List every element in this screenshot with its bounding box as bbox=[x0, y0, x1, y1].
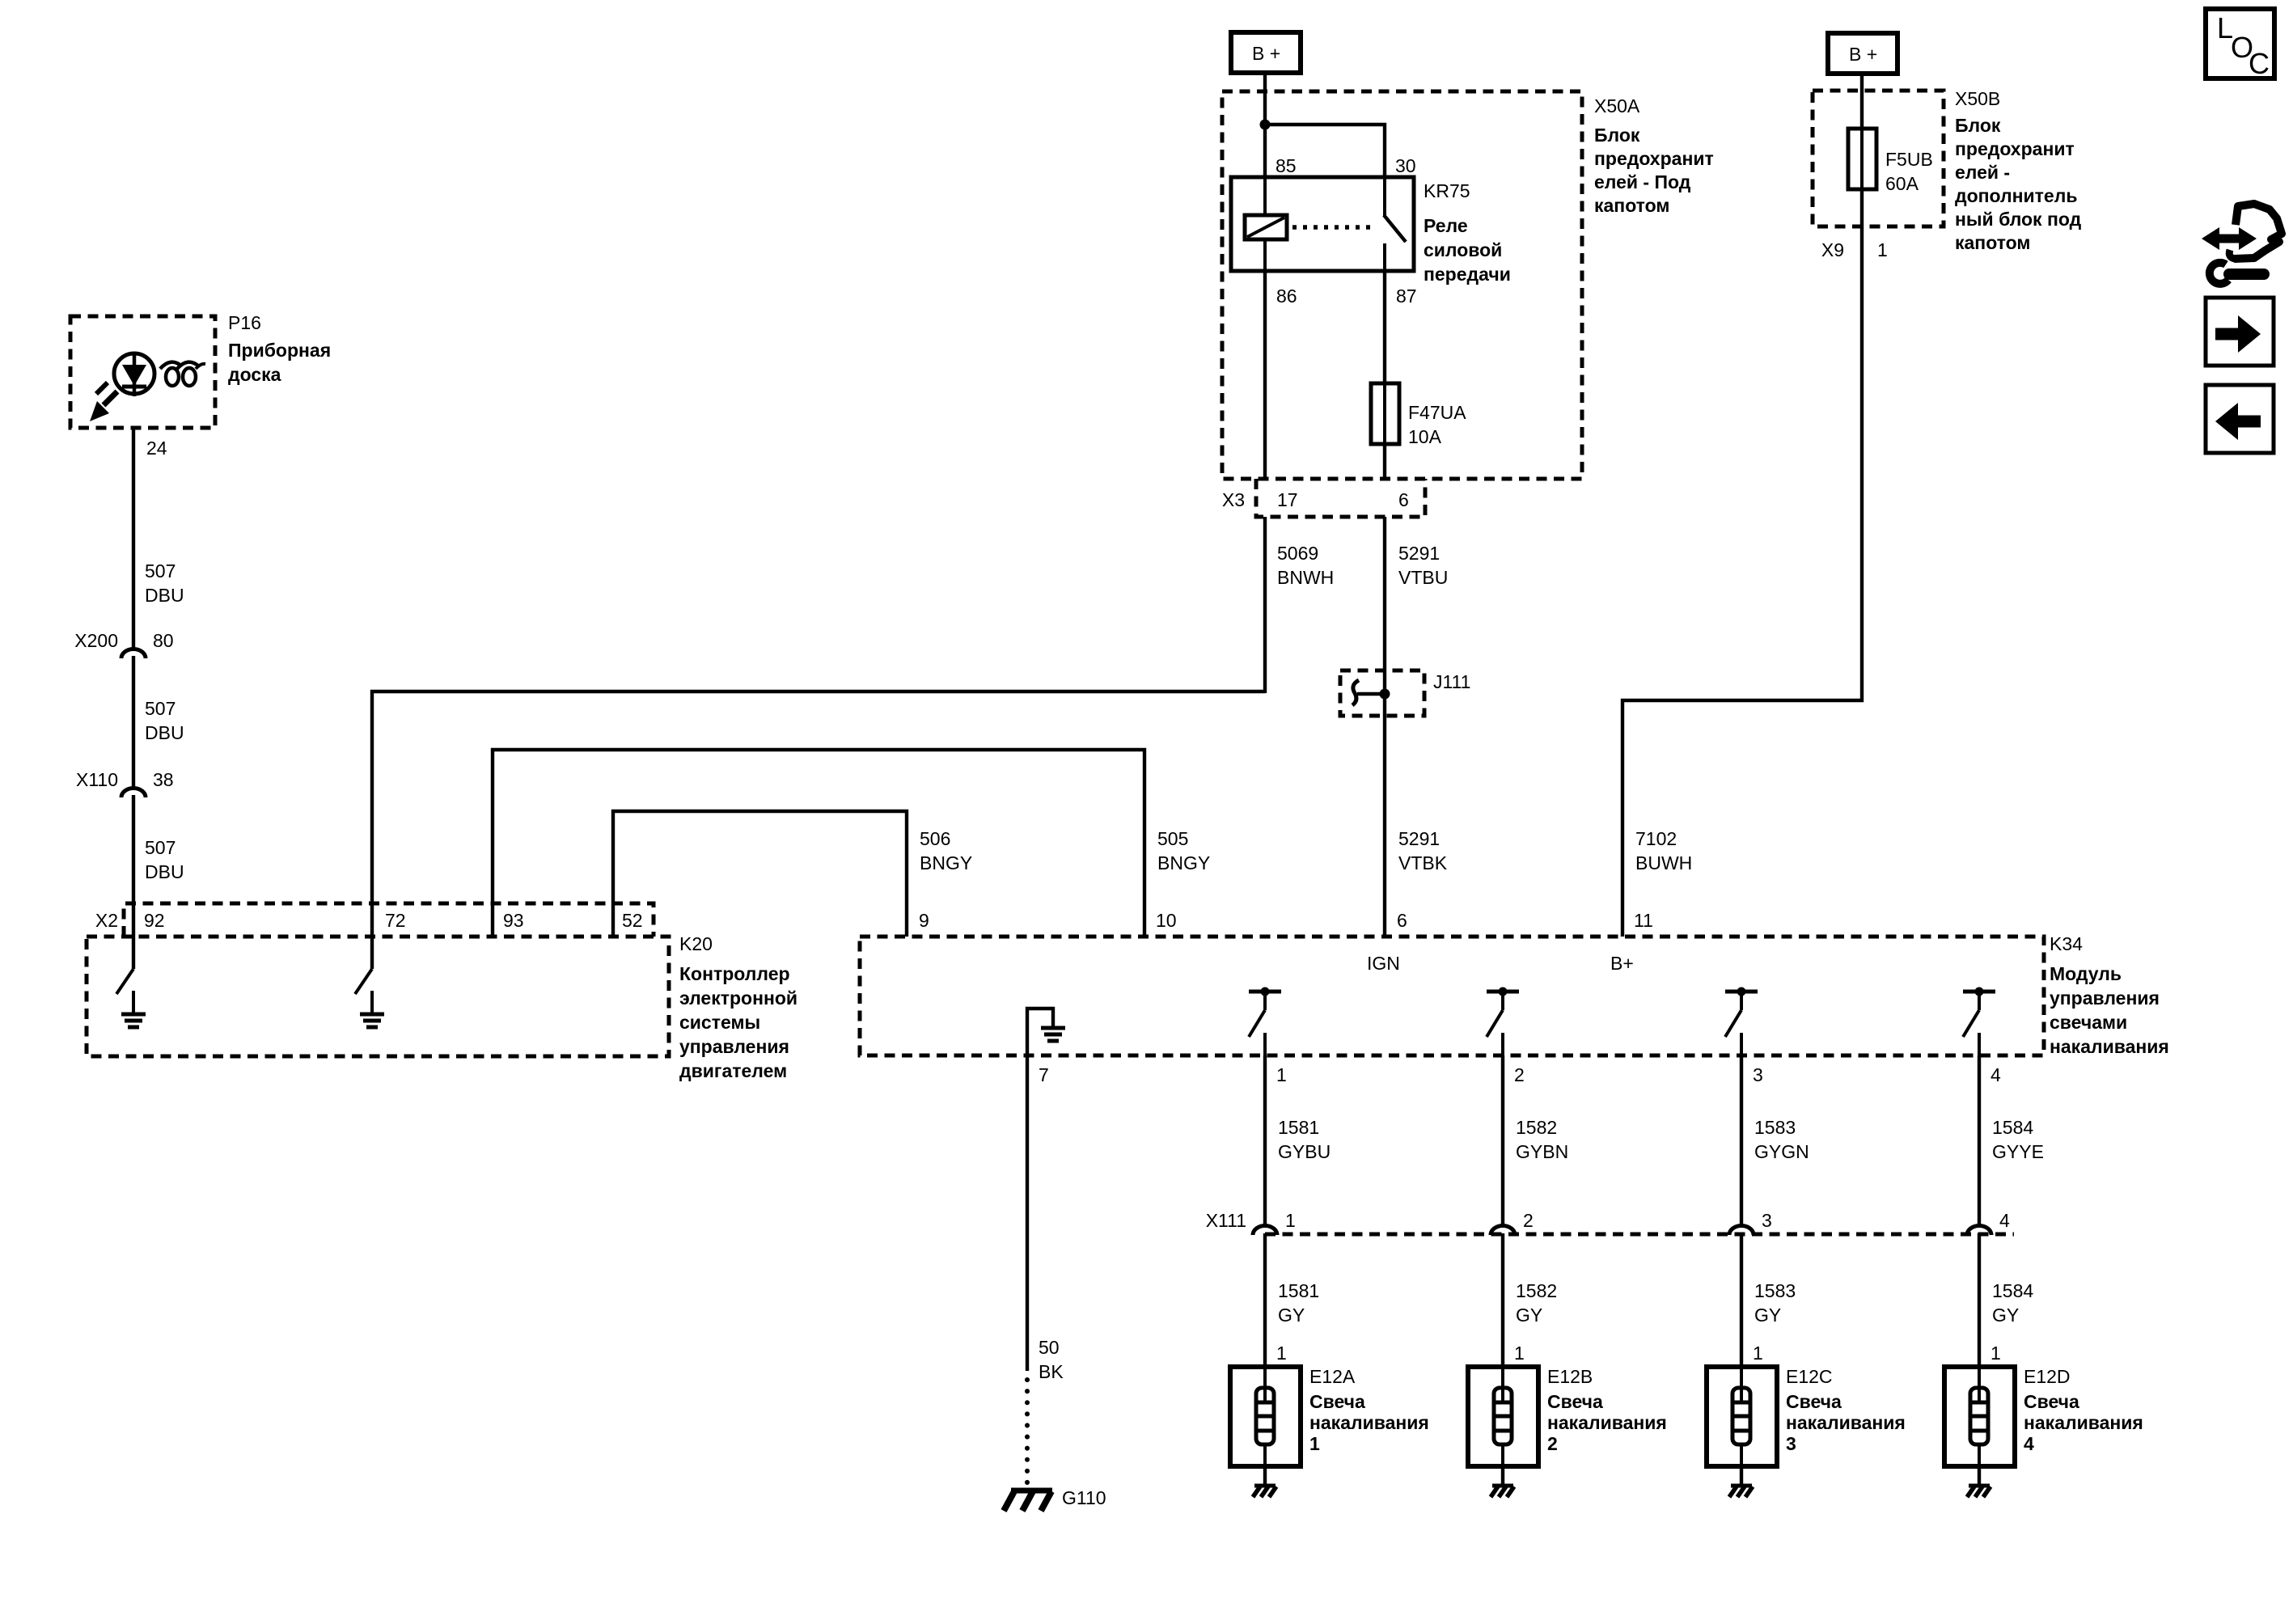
svg-text:X111: X111 bbox=[1206, 1210, 1246, 1231]
label wire 50 BK bbox=[1039, 1337, 1064, 1382]
connector X110 pin 38 bbox=[121, 789, 146, 797]
svg-text:30: 30 bbox=[1395, 155, 1416, 176]
svg-text:1584: 1584 bbox=[1992, 1280, 2033, 1301]
svg-text:передачи: передачи bbox=[1424, 264, 1511, 285]
svg-text:E12C: E12C bbox=[1786, 1366, 1833, 1387]
svg-text:6: 6 bbox=[1398, 489, 1409, 510]
svg-text:38: 38 bbox=[153, 769, 174, 790]
label wire 507 DBU (1) bbox=[145, 560, 184, 606]
svg-text:11: 11 bbox=[1634, 910, 1653, 931]
svg-text:J111: J111 bbox=[1433, 671, 1470, 692]
wire E12D to chassis ground bbox=[1978, 1466, 1981, 1485]
label X50B bbox=[1955, 88, 2082, 253]
label wire 1583 GY bbox=[1754, 1280, 1796, 1326]
svg-text:17: 17 bbox=[1277, 489, 1298, 510]
svg-text:елей - Под: елей - Под bbox=[1594, 171, 1691, 192]
connector X111 dashed line bbox=[1265, 1233, 2014, 1237]
splice J111 junction dot bbox=[1380, 689, 1390, 700]
glow plug E12C (Свеча накаливания 3) bbox=[1707, 1367, 1777, 1466]
svg-text:X3: X3 bbox=[1222, 489, 1245, 510]
label wire 1583 GYGN bbox=[1754, 1117, 1809, 1162]
label wire 1582 GY bbox=[1516, 1280, 1557, 1326]
svg-text:5069: 5069 bbox=[1277, 543, 1318, 564]
svg-text:IGN: IGN bbox=[1367, 953, 1400, 974]
relay KR75 box bbox=[1231, 177, 1414, 271]
svg-text:Реле: Реле bbox=[1424, 215, 1468, 236]
svg-text:C: C bbox=[2249, 47, 2270, 80]
wire P16 pin 24 down bbox=[132, 428, 135, 648]
K34 internal ground (pin 7) bbox=[1027, 1009, 1065, 1055]
svg-text:E12B: E12B bbox=[1547, 1366, 1593, 1387]
label K20 engine control module bbox=[679, 933, 797, 1081]
svg-text:накаливания: накаливания bbox=[1309, 1412, 1429, 1433]
connector X111 pin 2 bbox=[1491, 1210, 1534, 1235]
wire X2 pin 72 into K20 bbox=[370, 903, 374, 969]
svg-text:X2: X2 bbox=[95, 910, 118, 931]
label wire 1584 GY bbox=[1992, 1280, 2033, 1326]
svg-text:507: 507 bbox=[145, 837, 176, 858]
svg-text:1: 1 bbox=[1991, 1343, 2001, 1364]
svg-text:F5UB: F5UB bbox=[1885, 149, 1933, 170]
svg-text:GYGN: GYGN bbox=[1754, 1141, 1809, 1162]
wire 505 BNGY: K20 pin 93 to K34 pin 10 bbox=[493, 750, 1144, 937]
chassis ground below E12A bbox=[1254, 1484, 1276, 1488]
svg-text:X200: X200 bbox=[74, 630, 118, 651]
svg-text:1: 1 bbox=[1276, 1343, 1287, 1364]
svg-text:5291: 5291 bbox=[1398, 543, 1440, 564]
svg-text:80: 80 bbox=[153, 630, 174, 651]
svg-text:87: 87 bbox=[1396, 285, 1417, 307]
svg-text:52: 52 bbox=[622, 910, 643, 931]
connector X111 pin 3 bbox=[1729, 1210, 1772, 1235]
label E12C bbox=[1786, 1366, 1906, 1454]
svg-text:Блок: Блок bbox=[1594, 125, 1640, 146]
svg-text:предохранит: предохранит bbox=[1594, 148, 1714, 169]
wire 506 BNGY: K20 pin 52 to K34 pin 9 bbox=[613, 811, 907, 937]
K34 output switch 2 bbox=[1499, 988, 1508, 996]
K34 output switch 4 bbox=[1975, 988, 1984, 996]
svg-text:Блок: Блок bbox=[1955, 115, 2001, 136]
label wire 5291 VTBK bbox=[1398, 828, 1448, 873]
connector X111 pin 4 bbox=[1967, 1210, 2010, 1235]
svg-text:85: 85 bbox=[1276, 155, 1297, 176]
wire 507 DBU X110 to ECM pin 92 bbox=[132, 795, 135, 903]
svg-text:елей -: елей - bbox=[1955, 162, 2010, 183]
label E12B bbox=[1547, 1366, 1667, 1454]
wire 1584 GY: X111 pin 4 to glow plug E12D bbox=[1978, 1233, 1981, 1367]
wire 5069 BNWH horizontal run to ECM pin 72 bbox=[372, 691, 1265, 903]
chassis ground below E12D bbox=[1969, 1484, 1990, 1488]
svg-text:F47UA: F47UA bbox=[1408, 402, 1466, 423]
svg-text:6: 6 bbox=[1397, 910, 1407, 931]
glow plug E12D (Свеча накаливания 4) bbox=[1944, 1367, 2015, 1466]
relay KR75 switch contact (pin 30-87) bbox=[1384, 177, 1406, 271]
svg-text:60A: 60A bbox=[1885, 173, 1919, 194]
svg-text:4: 4 bbox=[1991, 1064, 2001, 1085]
ground G110 bbox=[1004, 1491, 1052, 1511]
icon arrow previous page bbox=[2206, 385, 2274, 453]
label wire 1581 GY bbox=[1278, 1280, 1319, 1326]
K20 internal ground at pin 92 bbox=[121, 1013, 146, 1017]
svg-text:1581: 1581 bbox=[1278, 1117, 1319, 1138]
icon arrow next page bbox=[2206, 298, 2274, 366]
svg-text:VTBU: VTBU bbox=[1398, 567, 1448, 588]
svg-text:1: 1 bbox=[1753, 1343, 1763, 1364]
svg-text:Модуль: Модуль bbox=[2050, 963, 2122, 984]
svg-text:E12A: E12A bbox=[1309, 1366, 1356, 1387]
wire relay pin 87 down to fuse F47UA bbox=[1383, 271, 1386, 385]
relay KR75 coil (pin 85-86) bbox=[1245, 177, 1287, 271]
connector X111 pin 1 bbox=[1253, 1210, 1296, 1235]
svg-text:Свеча: Свеча bbox=[1786, 1391, 1842, 1412]
svg-text:BNGY: BNGY bbox=[1157, 852, 1210, 873]
svg-text:1583: 1583 bbox=[1754, 1280, 1796, 1301]
relay KR75 actuation dotted link bbox=[1292, 225, 1375, 230]
svg-text:K20: K20 bbox=[679, 933, 713, 954]
label wire 7102 BUWH bbox=[1635, 828, 1692, 873]
label KR75 relay bbox=[1424, 180, 1511, 285]
svg-text:силовой: силовой bbox=[1424, 239, 1502, 260]
svg-text:B+: B+ bbox=[1610, 953, 1634, 974]
svg-text:B +: B + bbox=[1252, 43, 1280, 64]
fuse block X50B (auxiliary underhood) dashed enclosure bbox=[1813, 91, 1944, 226]
wire B+ left feed down into X50A bbox=[1263, 73, 1267, 125]
svg-text:5291: 5291 bbox=[1398, 828, 1440, 849]
svg-text:505: 505 bbox=[1157, 828, 1188, 849]
svg-text:2: 2 bbox=[1514, 1064, 1525, 1085]
wire 507 DBU X200 to X110 bbox=[132, 656, 135, 787]
K34 output switch 3 bbox=[1737, 988, 1746, 996]
svg-text:Свеча: Свеча bbox=[1547, 1391, 1603, 1412]
chassis ground below E12B bbox=[1492, 1484, 1513, 1488]
wire 5291 VTBK from J111 to K34 pin 6 bbox=[1383, 694, 1386, 937]
svg-text:GYBU: GYBU bbox=[1278, 1141, 1331, 1162]
svg-text:системы: системы bbox=[679, 1012, 760, 1033]
svg-text:2: 2 bbox=[1523, 1210, 1534, 1231]
svg-text:накаливания: накаливания bbox=[1547, 1412, 1667, 1433]
svg-text:24: 24 bbox=[146, 438, 167, 459]
wire junction to relay pin 30 bbox=[1265, 125, 1385, 177]
wire B+ right feed down to fuse F5UB bbox=[1860, 74, 1864, 130]
svg-text:капотом: капотом bbox=[1594, 195, 1669, 216]
svg-text:дополнитель: дополнитель bbox=[1955, 185, 2077, 206]
svg-text:507: 507 bbox=[145, 698, 176, 719]
svg-text:GY: GY bbox=[1992, 1305, 2019, 1326]
fuse F5UB 60A bbox=[1848, 129, 1876, 189]
svg-text:7: 7 bbox=[1039, 1064, 1049, 1085]
wire relay pin 86 down to X3 pin 17 bbox=[1263, 271, 1267, 479]
wire F5UB to X9 pin 1 bbox=[1860, 189, 1864, 226]
svg-text:506: 506 bbox=[920, 828, 950, 849]
svg-text:1584: 1584 bbox=[1992, 1117, 2033, 1138]
label P16 instrument panel bbox=[228, 312, 331, 385]
svg-text:электронной: электронной bbox=[679, 988, 797, 1009]
svg-text:ный блок под: ный блок под bbox=[1955, 209, 2082, 230]
svg-text:управления: управления bbox=[2050, 988, 2160, 1009]
instrument panel P16 dashed box bbox=[70, 316, 215, 428]
label E12D bbox=[2024, 1366, 2143, 1454]
svg-text:X110: X110 bbox=[76, 769, 118, 790]
svg-text:BNWH: BNWH bbox=[1277, 567, 1334, 588]
power symbol B+ (right feed) bbox=[1828, 33, 1897, 74]
svg-text:накаливания: накаливания bbox=[2050, 1036, 2169, 1057]
svg-text:DBU: DBU bbox=[145, 861, 184, 882]
K20 internal switch at pin 72 bbox=[355, 969, 372, 1014]
fuse block X50A (underhood) dashed enclosure bbox=[1222, 91, 1582, 479]
svg-text:1582: 1582 bbox=[1516, 1117, 1557, 1138]
wire stub X2 pin 52 bbox=[611, 903, 615, 937]
svg-text:KR75: KR75 bbox=[1424, 180, 1470, 201]
svg-text:G110: G110 bbox=[1062, 1487, 1106, 1508]
svg-text:92: 92 bbox=[144, 910, 165, 931]
K20 internal switch at pin 92 bbox=[116, 969, 133, 1014]
label F5UB 60A bbox=[1885, 149, 1933, 194]
K34 output switch 1 bbox=[1261, 988, 1270, 996]
wire 1583 GYGN: K34 pin 3 to X111 pin 3 bbox=[1740, 1055, 1743, 1225]
svg-text:10: 10 bbox=[1156, 910, 1177, 931]
svg-text:1: 1 bbox=[1514, 1343, 1525, 1364]
svg-text:K34: K34 bbox=[2050, 933, 2083, 954]
svg-text:7102: 7102 bbox=[1635, 828, 1677, 849]
svg-text:4: 4 bbox=[1999, 1210, 2010, 1231]
svg-text:GY: GY bbox=[1516, 1305, 1542, 1326]
svg-text:накаливания: накаливания bbox=[2024, 1412, 2143, 1433]
svg-text:10A: 10A bbox=[1408, 426, 1442, 447]
svg-text:DBU: DBU bbox=[145, 585, 184, 606]
svg-text:Свеча: Свеча bbox=[2024, 1391, 2079, 1412]
svg-text:X50B: X50B bbox=[1955, 88, 2000, 109]
power symbol B+ (left feed) bbox=[1231, 32, 1301, 73]
legend LOC box bbox=[2206, 9, 2274, 80]
K20 internal ground at pin 72 bbox=[360, 1013, 384, 1017]
svg-text:50: 50 bbox=[1039, 1337, 1060, 1358]
node junction above relay pin 85 bbox=[1260, 120, 1271, 130]
svg-text:3: 3 bbox=[1786, 1433, 1796, 1454]
svg-text:72: 72 bbox=[385, 910, 406, 931]
svg-text:4: 4 bbox=[2024, 1433, 2034, 1454]
svg-text:507: 507 bbox=[145, 560, 176, 582]
svg-text:Приборная: Приборная bbox=[228, 340, 331, 361]
wire 7102 BUWH from X9 pin 1 to K34 pin 11 bbox=[1622, 226, 1862, 937]
svg-text:2: 2 bbox=[1547, 1433, 1558, 1454]
label E12A bbox=[1309, 1366, 1429, 1454]
label wire 507 DBU (3) bbox=[145, 837, 184, 882]
svg-text:свечами: свечами bbox=[2050, 1012, 2127, 1033]
chassis ground below E12C bbox=[1731, 1484, 1752, 1488]
wire 50 BK from K34 pin 7 bbox=[1026, 1055, 1029, 1371]
svg-text:Свеча: Свеча bbox=[1309, 1391, 1365, 1412]
glow plug E12B (Свеча накаливания 2) bbox=[1468, 1367, 1538, 1466]
svg-text:GY: GY bbox=[1278, 1305, 1305, 1326]
svg-text:3: 3 bbox=[1762, 1210, 1772, 1231]
P16 gauge coil symbol bbox=[160, 362, 205, 386]
wire E12C to chassis ground bbox=[1740, 1466, 1743, 1485]
wire 1581 GYBU: K34 pin 1 to X111 pin 1 bbox=[1263, 1055, 1267, 1225]
svg-text:BUWH: BUWH bbox=[1635, 852, 1692, 873]
wire 5069 BNWH from X3 pin 17 down bbox=[1263, 517, 1267, 693]
svg-text:GYYE: GYYE bbox=[1992, 1141, 2044, 1162]
wire X2 pin 92 into K20 bbox=[132, 903, 135, 969]
wire 1584 GYYE: K34 pin 4 to X111 pin 4 bbox=[1978, 1055, 1981, 1225]
label K34 glow plug control module bbox=[2050, 933, 2169, 1057]
svg-text:DBU: DBU bbox=[145, 722, 184, 743]
glow plug module K34 dashed box bbox=[860, 937, 2044, 1055]
svg-text:3: 3 bbox=[1753, 1064, 1763, 1085]
fuse F47UA 10A bbox=[1371, 383, 1399, 444]
connector X9 pin 1 labels bbox=[1821, 239, 1888, 260]
svg-text:E12D: E12D bbox=[2024, 1366, 2071, 1387]
svg-text:1583: 1583 bbox=[1754, 1117, 1796, 1138]
svg-text:1582: 1582 bbox=[1516, 1280, 1557, 1301]
svg-text:9: 9 bbox=[919, 910, 929, 931]
svg-text:X50A: X50A bbox=[1594, 95, 1640, 116]
svg-text:GYBN: GYBN bbox=[1516, 1141, 1568, 1162]
splice J111 clip symbol bbox=[1352, 680, 1359, 705]
label wire 507 DBU (2) bbox=[145, 698, 184, 743]
wire junction to relay pin 85 bbox=[1263, 125, 1267, 177]
wire stub X2 pin 93 bbox=[491, 903, 494, 937]
label wire 506 BNGY bbox=[920, 828, 972, 873]
wire fuse F47UA to X3 pin 6 bbox=[1383, 444, 1386, 479]
svg-text:капотом: капотом bbox=[1955, 232, 2030, 253]
wire E12A to chassis ground bbox=[1263, 1466, 1267, 1485]
wire 1582 GYBN: K34 pin 2 to X111 pin 2 bbox=[1501, 1055, 1504, 1225]
svg-text:1: 1 bbox=[1877, 239, 1888, 260]
wire E12B to chassis ground bbox=[1501, 1466, 1504, 1485]
label wire 1584 GYYE bbox=[1992, 1117, 2044, 1162]
svg-text:P16: P16 bbox=[228, 312, 261, 333]
splice J111 tap wire bbox=[1357, 692, 1385, 696]
wire 5291 VTBU from X3 pin 6 down to splice J111 bbox=[1383, 517, 1386, 694]
svg-text:86: 86 bbox=[1276, 285, 1297, 307]
svg-text:BK: BK bbox=[1039, 1361, 1064, 1382]
icon electrical repair (harness) bbox=[2202, 204, 2282, 284]
svg-text:двигателем: двигателем bbox=[679, 1060, 787, 1081]
svg-text:предохранит: предохранит bbox=[1955, 138, 2075, 159]
ECM K20 dashed box bbox=[87, 937, 669, 1056]
svg-text:X9: X9 bbox=[1821, 239, 1844, 260]
label F47UA 10A bbox=[1408, 402, 1466, 447]
label wire 5069 BNWH bbox=[1277, 543, 1334, 588]
svg-text:93: 93 bbox=[503, 910, 524, 931]
wire 1583 GY: X111 pin 3 to glow plug E12C bbox=[1740, 1233, 1743, 1367]
splice J111 dashed box bbox=[1340, 670, 1424, 716]
connector X3 dashed box (pins 17, 6) bbox=[1256, 479, 1425, 517]
label wire 505 BNGY bbox=[1157, 828, 1210, 873]
P16 indicator LED symbol bbox=[90, 353, 154, 421]
label X50A bbox=[1594, 95, 1714, 216]
svg-text:GY: GY bbox=[1754, 1305, 1781, 1326]
connector X2 dashed strip bbox=[124, 903, 654, 937]
connector X200 pin 80 bbox=[121, 649, 146, 659]
svg-text:накаливания: накаливания bbox=[1786, 1412, 1906, 1433]
glow plug E12A (Свеча накаливания 1) bbox=[1230, 1367, 1301, 1466]
label wire 5291 VTBU bbox=[1398, 543, 1448, 588]
svg-text:1581: 1581 bbox=[1278, 1280, 1319, 1301]
svg-text:Контроллер: Контроллер bbox=[679, 963, 790, 984]
svg-text:1: 1 bbox=[1285, 1210, 1296, 1231]
label wire 1582 GYBN bbox=[1516, 1117, 1568, 1162]
label wire 1581 GYBU bbox=[1278, 1117, 1331, 1162]
svg-text:B +: B + bbox=[1849, 44, 1877, 65]
svg-text:VTBK: VTBK bbox=[1398, 852, 1448, 873]
svg-text:управления: управления bbox=[679, 1036, 789, 1057]
svg-text:1: 1 bbox=[1309, 1433, 1320, 1454]
wire 1581 GY: X111 pin 1 to glow plug E12A bbox=[1263, 1233, 1267, 1367]
svg-text:BNGY: BNGY bbox=[920, 852, 972, 873]
wire 1582 GY: X111 pin 2 to glow plug E12B bbox=[1501, 1233, 1504, 1367]
wire 50 BK dotted continuation bbox=[1025, 1380, 1030, 1488]
svg-text:доска: доска bbox=[228, 364, 281, 385]
svg-text:1: 1 bbox=[1276, 1064, 1287, 1085]
